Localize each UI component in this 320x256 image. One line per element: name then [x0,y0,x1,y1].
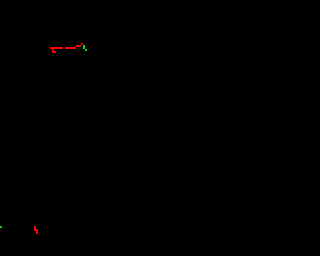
red zigzag upper bar [34,226,36,231]
snake head block [81,43,83,45]
snake body tail foot segment [52,51,56,53]
red zigzag lower bar [36,229,38,234]
snake body tail vertical segment [52,49,54,51]
green block at left edge [0,226,2,228]
green item tall block [83,45,85,49]
green item small block [85,49,87,51]
snake body segment 1 [50,47,63,49]
snake body step-up segment [76,45,81,47]
snake body segment 2 [65,47,76,49]
